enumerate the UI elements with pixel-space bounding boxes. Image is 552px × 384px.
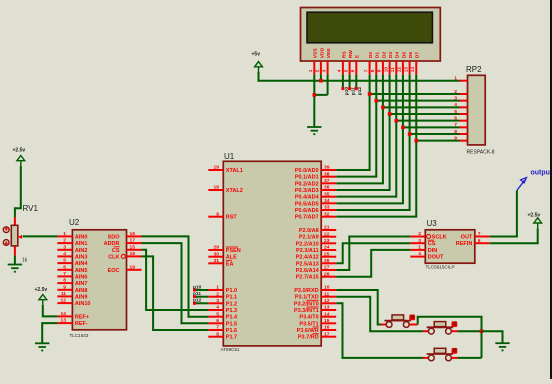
- U3 SCLK clock circle: [427, 235, 431, 239]
- wire U1 P3.2 to button 3: [336, 303, 423, 358]
- svg-text:6: 6: [350, 69, 356, 72]
- svg-text:9: 9: [454, 135, 457, 141]
- svg-text:3: 3: [418, 238, 421, 244]
- svg-text:2: 2: [418, 231, 421, 237]
- svg-text:15: 15: [130, 244, 136, 250]
- U3 left pins: [410, 231, 447, 261]
- svg-text:DIN: DIN: [428, 248, 438, 254]
- svg-text:9: 9: [216, 211, 219, 217]
- svg-text:10: 10: [324, 285, 330, 291]
- svg-text:21: 21: [324, 225, 330, 231]
- svg-text:P0.0/AD0: P0.0/AD0: [295, 168, 319, 174]
- U2 CLK clock circle: [121, 254, 125, 258]
- svg-text:OUT: OUT: [461, 235, 473, 241]
- svg-text:38: 38: [324, 171, 330, 177]
- svg-text:7: 7: [363, 69, 369, 72]
- svg-text:AT89C51: AT89C51: [221, 347, 241, 352]
- LCD pin names: [313, 47, 421, 58]
- svg-text:2: 2: [63, 238, 66, 244]
- svg-text:P0.1/AD1: P0.1/AD1: [295, 175, 319, 181]
- wire U1 P3.1 to button 2: [336, 297, 423, 332]
- LCD pin numbers 1-14: [308, 67, 416, 73]
- svg-text:28: 28: [324, 271, 330, 277]
- DAC U3 body: [425, 230, 475, 263]
- svg-text:5: 5: [454, 109, 457, 115]
- svg-text:5: 5: [63, 258, 66, 264]
- junction VSS/VEE: [313, 93, 317, 97]
- svg-text:34: 34: [324, 198, 330, 204]
- wire buttons common to ground: [482, 331, 503, 343]
- svg-text:30: 30: [214, 251, 220, 257]
- LCD module LCD1 body: [301, 8, 441, 62]
- wire U2 SDO to U1 P1.4: [142, 236, 209, 316]
- svg-text:8: 8: [454, 129, 457, 135]
- wire LCD VSS pin1 to ground: [313, 75, 315, 127]
- svg-text:19: 19: [214, 165, 220, 171]
- window border right: [550, 0, 552, 379]
- svg-text:AIN1: AIN1: [75, 241, 88, 247]
- wire LCD VEE pin3 to VSS net: [314, 75, 327, 95]
- svg-text:P1.5: P1.5: [226, 321, 237, 327]
- svg-text:P3.1/TXD: P3.1/TXD: [295, 295, 319, 301]
- svg-text:VEE: VEE: [326, 48, 332, 59]
- svg-text:P1.4: P1.4: [226, 315, 238, 321]
- ground RV1: [8, 265, 22, 272]
- U2 right pins: [104, 231, 142, 274]
- output terminal arrow: [517, 178, 527, 191]
- svg-text:P0.3/AD3: P0.3/AD3: [295, 188, 319, 194]
- svg-text:11: 11: [390, 67, 396, 72]
- wire button 2 right to common: [452, 330, 458, 332]
- LCD pins: [314, 61, 416, 75]
- svg-text:P3.7/RD: P3.7/RD: [298, 335, 319, 341]
- push button 2: [427, 321, 458, 334]
- push button 1: [385, 315, 416, 328]
- U2 left pins: [57, 231, 90, 327]
- svg-text:RW: RW: [348, 50, 354, 58]
- ADC U2 body: [72, 230, 126, 330]
- wire U3 SCLK to U1 P2.6: [336, 237, 410, 271]
- svg-text:p10: p10: [193, 284, 202, 290]
- svg-text:REF-: REF-: [75, 321, 88, 327]
- svg-text:6: 6: [216, 318, 219, 324]
- svg-text:4: 4: [418, 251, 421, 257]
- svg-text:p11: p11: [193, 291, 201, 297]
- svg-text:EA: EA: [226, 261, 234, 267]
- svg-text:23: 23: [324, 238, 330, 244]
- wires LCD RS RW E with net labels p10 p11 p12: [342, 75, 344, 89]
- ground buttons: [495, 343, 509, 350]
- svg-text:P1.6: P1.6: [226, 328, 237, 334]
- wire RV1 wiper to U2 AIN0: [23, 235, 58, 237]
- svg-text:TLC5615CILP: TLC5615CILP: [426, 265, 455, 270]
- svg-text:15: 15: [324, 318, 330, 324]
- svg-text:AIN4: AIN4: [75, 261, 88, 267]
- svg-text:27: 27: [324, 265, 330, 271]
- svg-text:1: 1: [63, 231, 66, 237]
- svg-text:11: 11: [61, 291, 66, 297]
- svg-text:D6: D6: [408, 52, 414, 59]
- U1 left pins: [208, 165, 243, 341]
- wire +2.5v to U3 REFIN: [490, 228, 538, 243]
- svg-text:P0.2/AD2: P0.2/AD2: [295, 181, 319, 187]
- svg-text:4: 4: [454, 102, 457, 108]
- svg-text:P0.5/AD5: P0.5/AD5: [295, 201, 319, 207]
- svg-text:P3.6/WR: P3.6/WR: [297, 328, 319, 334]
- svg-text:P3.5/T1: P3.5/T1: [299, 321, 318, 327]
- svg-text:6: 6: [478, 238, 481, 244]
- svg-text:26: 26: [324, 258, 330, 264]
- push button 3: [427, 348, 458, 361]
- svg-text:P3.3/INT1: P3.3/INT1: [294, 308, 319, 314]
- junction buttons common: [480, 329, 484, 333]
- svg-text:AIN3: AIN3: [75, 254, 88, 260]
- svg-text:9: 9: [63, 284, 66, 290]
- svg-text:P1.0: P1.0: [226, 288, 237, 294]
- svg-text:12: 12: [397, 67, 403, 73]
- svg-text:P2.7/A15: P2.7/A15: [296, 275, 319, 281]
- svg-text:29: 29: [214, 245, 220, 251]
- wires U1 P1.0-P1.2 net labels p10 p11 p12: [195, 289, 209, 291]
- svg-text:3: 3: [454, 95, 457, 101]
- svg-text:3: 3: [321, 69, 327, 72]
- svg-text:3: 3: [216, 298, 219, 304]
- svg-text:14: 14: [61, 311, 67, 317]
- wire U1 P3.0 to button 1: [336, 290, 381, 325]
- svg-text:RP2: RP2: [466, 65, 482, 74]
- svg-text:16: 16: [324, 325, 330, 331]
- svg-text:output: output: [531, 170, 552, 177]
- svg-text:P1.3: P1.3: [226, 308, 237, 314]
- svg-text:13: 13: [61, 318, 67, 324]
- wires LCD D0-D7 to RP2 pins 2-9 and U1 P0.0-P0.7: [336, 75, 369, 170]
- svg-text:P2.2/A10: P2.2/A10: [296, 241, 319, 247]
- svg-text:D0: D0: [368, 52, 374, 59]
- svg-text:7: 7: [454, 122, 457, 128]
- wire +5v rail to RP2 pin1: [259, 72, 460, 81]
- svg-text:14: 14: [410, 67, 416, 73]
- svg-text:24: 24: [324, 245, 330, 251]
- svg-text:6: 6: [63, 264, 66, 270]
- svg-text:AIN0: AIN0: [75, 234, 88, 240]
- power +2.5v symbol left: [17, 156, 25, 166]
- svg-text:D2: D2: [381, 52, 387, 59]
- svg-text:P3.2/INT0: P3.2/INT0: [294, 301, 319, 307]
- svg-text:1: 1: [418, 245, 421, 251]
- svg-text:9: 9: [377, 69, 383, 72]
- svg-text:XTAL1: XTAL1: [226, 168, 243, 174]
- svg-text:4: 4: [216, 305, 219, 311]
- svg-text:18: 18: [130, 251, 136, 257]
- svg-text:8: 8: [216, 331, 219, 337]
- wire U2 CLK to U1 P1.6: [142, 256, 209, 330]
- svg-text:12: 12: [61, 298, 67, 304]
- svg-text:3: 3: [63, 244, 66, 250]
- wire U3 CS to U1 P2.5: [336, 243, 410, 263]
- svg-text:P0.7/AD7: P0.7/AD7: [295, 215, 319, 221]
- svg-text:P2.1/A9: P2.1/A9: [299, 235, 319, 241]
- svg-text:5: 5: [343, 69, 349, 72]
- svg-text:D4: D4: [395, 52, 401, 59]
- svg-text:2: 2: [315, 69, 321, 72]
- svg-text:2: 2: [454, 89, 457, 95]
- svg-text:11: 11: [324, 291, 329, 297]
- svg-text:EOC: EOC: [108, 268, 120, 274]
- svg-text:CS: CS: [428, 241, 436, 247]
- svg-text:P2.4/A12: P2.4/A12: [296, 255, 319, 261]
- svg-text:D3: D3: [388, 52, 394, 59]
- svg-text:+2.5v: +2.5v: [35, 287, 48, 293]
- svg-text:U2: U2: [69, 218, 80, 227]
- svg-text:31: 31: [214, 258, 220, 264]
- svg-text:P2.5/A13: P2.5/A13: [296, 261, 319, 267]
- wire U2 ADDR to U1 P1.5: [142, 243, 209, 323]
- wire button 3 right to common: [452, 357, 458, 359]
- svg-text:P2.3/A11: P2.3/A11: [296, 248, 319, 254]
- svg-text:7: 7: [216, 325, 219, 331]
- svg-text:REF+: REF+: [75, 314, 89, 320]
- potentiometer RV1: [3, 217, 22, 255]
- svg-text:P3.0/RXD: P3.0/RXD: [294, 288, 318, 294]
- svg-text:2: 2: [216, 291, 219, 297]
- svg-text:SCLK: SCLK: [432, 235, 447, 241]
- svg-text:10: 10: [383, 67, 389, 73]
- wire button 1 right to common: [410, 324, 418, 326]
- svg-text:ALE: ALE: [226, 255, 237, 261]
- svg-text:18: 18: [214, 185, 220, 191]
- svg-text:XTAL2: XTAL2: [226, 188, 243, 194]
- wire U2 REF- to ground: [42, 323, 57, 343]
- wire RV1 bottom to ground: [14, 255, 16, 264]
- svg-text:19: 19: [130, 264, 136, 270]
- svg-text:CS: CS: [112, 248, 120, 254]
- U3 right pins: [456, 231, 490, 247]
- svg-text:7: 7: [478, 231, 481, 237]
- svg-text:5: 5: [216, 311, 219, 317]
- svg-text:VSS: VSS: [313, 48, 319, 59]
- svg-text:RESPACK-8: RESPACK-8: [467, 150, 495, 156]
- svg-text:+2.5v: +2.5v: [528, 213, 541, 219]
- svg-text:6: 6: [454, 115, 457, 121]
- svg-text:RS: RS: [341, 51, 347, 59]
- power +5v symbol: [255, 62, 263, 72]
- svg-text:32: 32: [324, 211, 330, 217]
- svg-text:CLK: CLK: [108, 254, 119, 260]
- wire +2.5v to RV1 top: [15, 166, 21, 218]
- svg-text:1: 1: [216, 285, 219, 291]
- svg-text:+5v: +5v: [252, 52, 261, 58]
- svg-text:P0.6/AD6: P0.6/AD6: [295, 208, 319, 214]
- svg-text:39: 39: [324, 165, 330, 171]
- svg-text:U1: U1: [224, 152, 235, 161]
- svg-text:AIN10: AIN10: [75, 301, 91, 307]
- wire U3 DIN to U1 P2.7: [336, 250, 410, 277]
- svg-text:P1.1: P1.1: [226, 295, 237, 301]
- svg-text:DOUT: DOUT: [428, 255, 444, 261]
- svg-text:8: 8: [370, 69, 376, 72]
- U1 right pins: [294, 165, 336, 341]
- svg-text:13: 13: [324, 305, 330, 311]
- svg-text:13: 13: [403, 67, 409, 73]
- resistor pack RP2 body: [468, 75, 486, 145]
- wire LCD VDD pin2: [320, 75, 322, 81]
- wire +2.5v to U2 REF+: [43, 305, 58, 317]
- svg-text:37: 37: [324, 178, 330, 184]
- svg-text:P1.2: P1.2: [226, 301, 237, 307]
- junction LCD VDD on +5v rail: [319, 79, 323, 83]
- svg-text:P3.4/T0: P3.4/T0: [299, 315, 318, 321]
- svg-text:PSEN: PSEN: [226, 248, 241, 254]
- svg-text:1k: 1k: [22, 258, 28, 264]
- svg-text:P2.6/A14: P2.6/A14: [296, 268, 320, 274]
- svg-text:RV1: RV1: [23, 204, 39, 213]
- wire U3 OUT to output terminal: [490, 191, 517, 237]
- svg-text:1: 1: [308, 69, 314, 72]
- svg-text:14: 14: [324, 311, 330, 317]
- svg-text:22: 22: [324, 231, 330, 237]
- svg-text:D1: D1: [375, 52, 381, 59]
- svg-text:17: 17: [324, 331, 330, 337]
- svg-text:RST: RST: [226, 215, 238, 221]
- svg-text:AIN8: AIN8: [75, 288, 88, 294]
- svg-text:4: 4: [63, 251, 66, 257]
- svg-text:36: 36: [324, 185, 330, 191]
- svg-text:VDD: VDD: [319, 47, 325, 58]
- svg-text:1: 1: [454, 76, 457, 82]
- ground LCD: [307, 127, 321, 134]
- svg-text:AIN2: AIN2: [75, 248, 88, 254]
- svg-text:12: 12: [324, 298, 330, 304]
- svg-text:D5: D5: [401, 52, 407, 59]
- svg-text:TLC1543: TLC1543: [70, 333, 89, 338]
- svg-text:D7: D7: [415, 52, 421, 59]
- svg-text:8: 8: [63, 278, 66, 284]
- power +2.5v symbol right: [534, 218, 542, 228]
- svg-text:ADDR: ADDR: [104, 241, 120, 247]
- svg-text:P2.0/A8: P2.0/A8: [299, 228, 319, 234]
- svg-text:35: 35: [324, 191, 330, 197]
- svg-text:p12: p12: [357, 87, 363, 96]
- svg-text:U3: U3: [427, 219, 438, 228]
- svg-text:25: 25: [324, 251, 330, 257]
- svg-text:AIN5: AIN5: [75, 268, 88, 274]
- svg-text:AIN7: AIN7: [75, 281, 88, 287]
- svg-text:+2.5v: +2.5v: [13, 148, 26, 154]
- RP2 pins 1-9: [454, 76, 467, 142]
- ground REF-: [35, 343, 49, 350]
- svg-text:17: 17: [130, 238, 136, 244]
- svg-text:33: 33: [324, 205, 330, 211]
- svg-text:SDO: SDO: [108, 234, 121, 240]
- svg-text:REFIN: REFIN: [456, 241, 473, 247]
- svg-text:AIN9: AIN9: [75, 294, 88, 300]
- svg-text:4: 4: [337, 69, 343, 72]
- svg-text:7: 7: [63, 271, 66, 277]
- LCD screen: [307, 12, 432, 43]
- svg-text:P0.4/AD4: P0.4/AD4: [295, 195, 320, 201]
- svg-text:p12: p12: [193, 298, 202, 304]
- microcontroller U1 body: [223, 161, 321, 346]
- power +2.5v symbol REF+: [39, 295, 47, 305]
- svg-text:AIN6: AIN6: [75, 274, 88, 280]
- svg-text:16: 16: [130, 231, 136, 237]
- svg-text:P1.7: P1.7: [226, 335, 237, 341]
- wire U2 CS to U1 P1.3: [142, 250, 209, 310]
